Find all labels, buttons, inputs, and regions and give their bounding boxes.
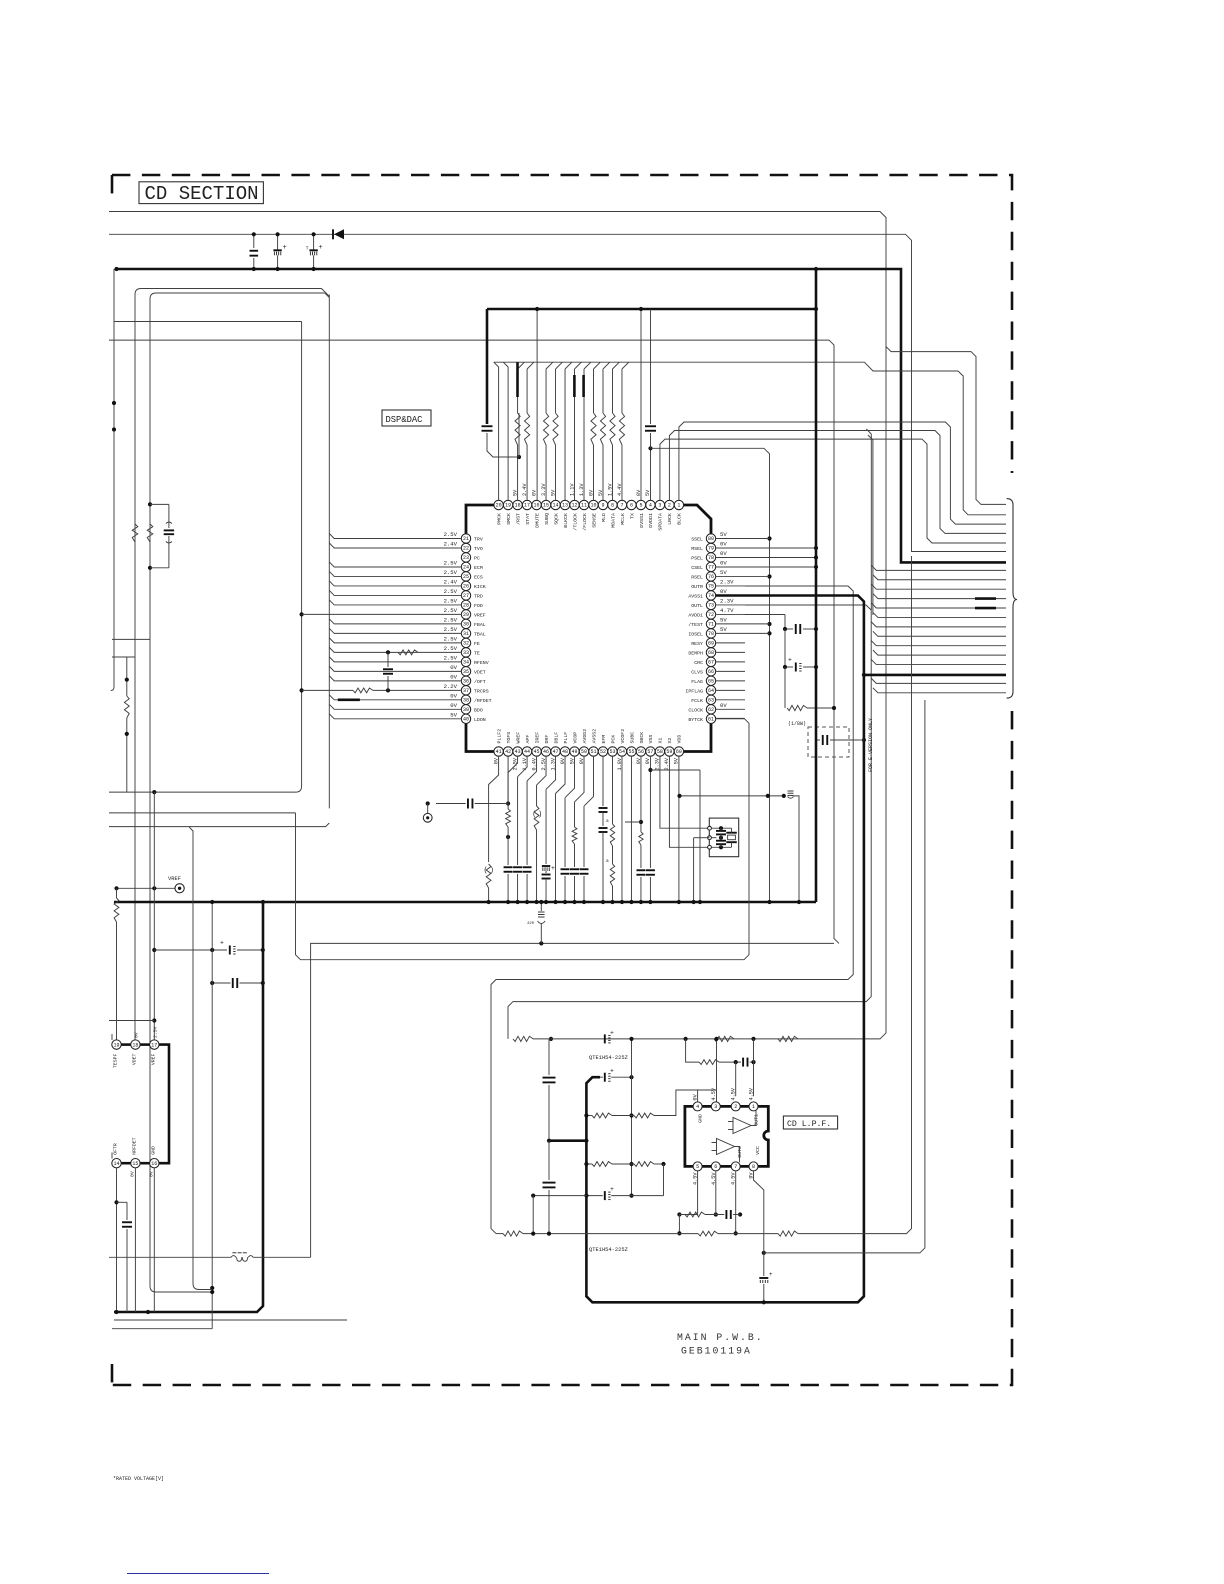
pin 32 FE xyxy=(461,638,470,647)
wire pin 40 horizontal xyxy=(329,714,461,719)
wire row y983 xyxy=(212,982,230,984)
capacitor C pin14 xyxy=(117,1201,128,1203)
bold segment bus marker a xyxy=(516,362,519,397)
svg-text:+: + xyxy=(551,865,555,872)
svg-text:8: 8 xyxy=(611,503,614,509)
capacitor C pin44 xyxy=(513,866,522,868)
svg-text:GND: GND xyxy=(150,1146,156,1155)
pin 3 SPDATA xyxy=(655,500,664,509)
svg-text:5: 5 xyxy=(696,1164,699,1170)
wire pin 48 down xyxy=(556,756,566,794)
svg-text:SMCK: SMCK xyxy=(506,513,512,525)
pin 62 CLOCK xyxy=(706,705,715,714)
pin 72 AVDD1 xyxy=(706,610,715,619)
svg-text:2: 2 xyxy=(734,1104,737,1110)
wire pin 29 from x301 xyxy=(300,612,304,616)
wire left vertical main xyxy=(111,269,114,691)
wire pin 78 stub xyxy=(715,556,816,558)
wire pin 34 horizontal xyxy=(329,657,461,662)
pin 80 SSEL xyxy=(706,534,715,543)
DSP&DAC label box xyxy=(382,410,431,426)
wire xtal rows xyxy=(711,827,731,829)
svg-text:53: 53 xyxy=(609,749,615,755)
pin 70 IOSEL xyxy=(706,629,715,638)
wire pin 43 down xyxy=(508,756,518,773)
wire pin 27 horizontal xyxy=(329,590,461,595)
wire 45 join pin 8 xyxy=(612,362,619,369)
resistor R lpf top b xyxy=(714,1036,734,1041)
pin 8 lpf xyxy=(749,1162,758,1171)
svg-text:39: 39 xyxy=(463,707,469,713)
ferrite bead y795 xyxy=(788,790,794,792)
resistor R pin 53 a xyxy=(610,824,614,846)
capacitor C pin51 xyxy=(580,868,589,870)
svg-text:4.5V: 4.5V xyxy=(711,1087,717,1100)
svg-text:IREF: IREF xyxy=(534,732,540,744)
svg-text:14: 14 xyxy=(113,1161,119,1167)
svg-text:7: 7 xyxy=(734,1164,737,1170)
pin 7 lpf xyxy=(731,1162,740,1171)
pin 78 PSEL xyxy=(706,553,715,562)
svg-text:SSEL: SSEL xyxy=(691,537,703,543)
svg-text:2.5V: 2.5V xyxy=(152,1026,158,1038)
svg-text:STAT: STAT xyxy=(525,513,531,525)
svg-text:NRFDET: NRFDET xyxy=(131,1137,137,1154)
svg-text:VCOP: VCOP xyxy=(572,732,578,744)
pin 19 TESPF xyxy=(112,1040,121,1049)
wire pin 66 stub xyxy=(715,670,745,672)
svg-text:27: 27 xyxy=(463,593,469,599)
wire brace entry 12 xyxy=(873,612,1006,617)
electrolytic capacitor bias xyxy=(586,1195,602,1197)
pin 6 TX xyxy=(627,500,636,509)
wire brace entry 9 xyxy=(871,584,1006,589)
svg-text:MSEL: MSEL xyxy=(691,546,703,552)
svg-text:60: 60 xyxy=(676,749,682,755)
crystal X element xyxy=(726,832,737,834)
svg-text:0V: 0V xyxy=(450,664,457,671)
resistor R pin43 xyxy=(506,809,511,827)
svg-text:58: 58 xyxy=(657,749,663,755)
svg-text:PSEL: PSEL xyxy=(691,555,703,561)
wire 45 join pin 14 xyxy=(556,362,563,369)
svg-text:DEMPH: DEMPH xyxy=(688,650,703,656)
capacitor C avdd a xyxy=(784,615,786,630)
svg-text:ECS: ECS xyxy=(474,574,483,580)
svg-text:5V: 5V xyxy=(720,569,727,576)
thick ground bus xyxy=(114,901,816,904)
svg-text:5V: 5V xyxy=(720,616,727,623)
svg-text:VDET: VDET xyxy=(131,1053,137,1065)
wire brace entry 11 xyxy=(871,603,1006,608)
wire y1257 row xyxy=(109,1256,231,1258)
svg-text:2.5V: 2.5V xyxy=(444,635,458,642)
pin 2 lpf xyxy=(731,1102,740,1111)
pin 77 CSEL xyxy=(706,562,715,571)
svg-text:SBCK: SBCK xyxy=(639,732,645,744)
svg-text:41: 41 xyxy=(496,749,502,755)
svg-text:4.7V: 4.7V xyxy=(720,607,734,614)
crystal X1 oscillator box xyxy=(709,818,738,857)
resistor R bias r2a xyxy=(592,1162,612,1167)
wire 45 join pin 7 xyxy=(622,362,629,369)
bold segment entry overlay a xyxy=(975,597,996,600)
node dot y403 xyxy=(112,401,116,405)
wire xtal gnd xyxy=(694,837,710,839)
svg-text:GEB10119A: GEB10119A xyxy=(681,1346,752,1357)
pin 18 /RST xyxy=(513,500,522,509)
wire pin 49 down xyxy=(565,756,575,798)
wire pin 47 down xyxy=(546,756,556,790)
wire pin 22 horizontal xyxy=(329,543,461,548)
wire vref horizontal y888 xyxy=(117,887,175,889)
wire branch x196 down xyxy=(189,827,212,1290)
svg-text:RSEL: RSEL xyxy=(691,574,703,580)
svg-text:62: 62 xyxy=(708,707,714,713)
svg-text:OUTR: OUTR xyxy=(691,584,703,590)
wire y826 line to bundle xyxy=(109,823,329,827)
svg-text:9: 9 xyxy=(601,503,604,509)
wire pin 11 to rail xyxy=(583,369,585,501)
pin 40 LDON xyxy=(461,714,470,723)
svg-text:61: 61 xyxy=(708,717,714,723)
wire pin 70 stub xyxy=(715,632,769,634)
pin 60 VDD xyxy=(674,747,683,756)
wire brace entry 15 xyxy=(871,641,1006,646)
svg-text:VREF: VREF xyxy=(474,612,486,618)
wire pin 79 stub xyxy=(715,547,816,549)
pin 12 /TLOCK xyxy=(570,500,579,509)
svg-text:DBLF: DBLF xyxy=(553,732,559,744)
wire pin 33 horizontal xyxy=(329,647,461,652)
resistor R on loop1 xyxy=(132,524,138,542)
wire pin 73 stub xyxy=(715,604,745,606)
svg-text:54: 54 xyxy=(619,749,625,755)
svg-text:VREF: VREF xyxy=(168,876,181,882)
pin 69 RESY xyxy=(706,638,715,647)
connector edge tick a xyxy=(111,1034,113,1040)
svg-text:PLLF2: PLLF2 xyxy=(496,729,502,744)
wire brace entry 13 xyxy=(871,622,1006,627)
wire x301 net VREF xyxy=(109,322,302,793)
svg-text:0V: 0V xyxy=(129,1171,135,1177)
wire pin 46 down xyxy=(537,756,547,785)
svg-text:0V: 0V xyxy=(450,673,457,680)
svg-text:4: 4 xyxy=(649,503,652,509)
svg-text:16: 16 xyxy=(151,1161,157,1167)
svg-text:FBAL: FBAL xyxy=(474,622,486,628)
pin 49 VCOP xyxy=(570,747,579,756)
wire vref vertical x154 xyxy=(153,792,155,1040)
svg-text:0V: 0V xyxy=(450,702,457,709)
wire brace entry 7 xyxy=(871,565,1006,570)
svg-text:2.5V: 2.5V xyxy=(444,588,458,595)
wire pin20 up xyxy=(498,367,500,501)
resistor R pull pin 10 xyxy=(593,445,595,501)
wire OUTL to LPF xyxy=(508,605,871,1039)
capacitor C option xyxy=(816,739,820,741)
bold segment pin38 marker xyxy=(338,698,360,701)
wire pin 56 down xyxy=(640,756,642,832)
wire pin 67 stub xyxy=(715,661,745,663)
wire x533 stub xyxy=(533,1195,586,1197)
wire pin 59 down xyxy=(669,756,707,848)
wire brace entry 16 xyxy=(873,650,1006,655)
svg-text:0V: 0V xyxy=(133,1032,139,1038)
resistor R avdd xyxy=(784,667,786,708)
wire brace entry 8 xyxy=(873,575,1006,580)
svg-text:22: 22 xyxy=(463,546,469,552)
svg-text:DMUTE: DMUTE xyxy=(534,513,540,528)
wire pin 35 horizontal xyxy=(329,666,461,671)
svg-text:67: 67 xyxy=(708,660,714,666)
wire pin 72 stub xyxy=(715,613,769,615)
wire y321 horizontal xyxy=(114,321,302,323)
thick power bus to brace entry 6 xyxy=(117,269,1007,562)
svg-text:65: 65 xyxy=(708,679,714,685)
wire pin 50 down xyxy=(575,756,585,802)
pin 4 lpf xyxy=(693,1102,702,1111)
svg-text:SUBC: SUBC xyxy=(629,732,635,744)
capacitor C pin49 xyxy=(561,868,570,870)
wire 5v row y950 xyxy=(154,949,227,951)
svg-text:+: + xyxy=(788,657,792,664)
thick branch left cap xyxy=(487,308,816,311)
svg-text:0V: 0V xyxy=(720,702,727,709)
resistor R pin33 wire xyxy=(398,650,418,655)
svg-text:42: 42 xyxy=(505,749,511,755)
svg-text:64: 64 xyxy=(708,688,714,694)
pin 76 RSEL xyxy=(706,572,715,581)
electrolytic capacitor on rail2 a xyxy=(277,234,279,250)
pin 4 DVDD1 xyxy=(646,500,655,509)
svg-text:TOFS: TOFS xyxy=(506,732,512,744)
electrolytic capacitor pin47 xyxy=(542,865,550,867)
pin 6 lpf xyxy=(711,1162,720,1171)
pin 16 DMUTE xyxy=(532,500,541,509)
pin 15 SUBQ xyxy=(541,500,550,509)
svg-text:SENSE: SENSE xyxy=(591,513,597,528)
pin 1 BLCK xyxy=(674,500,683,509)
wire pin 45 down xyxy=(527,756,537,781)
svg-text:/TLOCK: /TLOCK xyxy=(572,513,578,531)
wire pin 13 to rail xyxy=(564,369,566,501)
svg-text:44: 44 xyxy=(524,749,530,755)
wire pin7 down xyxy=(735,1171,737,1234)
wire loop1 vertical x135 xyxy=(135,289,322,1040)
pin 28 FOD xyxy=(461,600,470,609)
resistor R pull pin 18 xyxy=(517,445,519,501)
diode D on rail2 xyxy=(334,229,344,239)
svg-text:T: T xyxy=(306,246,309,252)
wire pin8 down xyxy=(754,1171,764,1268)
capacitor C y983 xyxy=(232,978,234,988)
resistor R bias r2b xyxy=(634,1162,654,1167)
svg-text:2.5V: 2.5V xyxy=(444,559,458,566)
svg-text:79: 79 xyxy=(708,546,714,552)
pin 13 BLKCK xyxy=(560,500,569,509)
pin 22 TVO xyxy=(461,543,470,552)
svg-text:PCK: PCK xyxy=(610,735,616,744)
resistor R y1233 right xyxy=(778,1231,798,1236)
svg-text:74: 74 xyxy=(708,593,714,599)
pin 14 SQCK xyxy=(551,500,560,509)
wire brace entry 14 xyxy=(873,631,1006,636)
svg-text:34: 34 xyxy=(463,660,469,666)
svg-text:BYTCK: BYTCK xyxy=(688,717,703,723)
svg-text:PMCK: PMCK xyxy=(496,513,502,525)
pin 39 BDO xyxy=(461,705,470,714)
wire loop2 45 bend into bundle xyxy=(325,293,330,298)
wire lpf lower feedback xyxy=(677,1212,681,1216)
svg-text:AVDD1: AVDD1 xyxy=(688,612,703,618)
pin 79 MSEL xyxy=(706,543,715,552)
svg-text:33: 33 xyxy=(463,650,469,656)
svg-text:11: 11 xyxy=(581,503,587,509)
svg-text:TBAL: TBAL xyxy=(474,631,486,637)
pin 18 VDET xyxy=(131,1040,140,1049)
wire pin 38 horizontal xyxy=(329,695,461,700)
svg-text:DVSS1: DVSS1 xyxy=(639,513,645,528)
svg-text:10: 10 xyxy=(590,503,596,509)
svg-text:PLLF: PLLF xyxy=(563,732,569,744)
svg-text:66: 66 xyxy=(708,669,714,675)
pin 16 GND xyxy=(150,1159,159,1168)
svg-text:MDATA: MDATA xyxy=(610,513,616,528)
capacitor C lpf input b xyxy=(548,1141,550,1180)
svg-text:32: 32 xyxy=(463,641,469,647)
junction lpf left xyxy=(549,1037,553,1041)
pin 48 PLLF xyxy=(560,747,569,756)
svg-text:QTE1H54-225Z: QTE1H54-225Z xyxy=(589,1055,629,1061)
svg-text:EFM: EFM xyxy=(601,735,607,744)
ferrite bead 0ohm xyxy=(232,1252,236,1254)
svg-text:CD SECTION: CD SECTION xyxy=(145,183,259,205)
pin 10 SENSE xyxy=(589,500,598,509)
pin 19 SMCK xyxy=(503,500,512,509)
svg-text:OUT2: OUT2 xyxy=(737,1146,743,1158)
svg-text:19: 19 xyxy=(113,1042,119,1048)
node test point circle xyxy=(426,801,430,805)
svg-text:68: 68 xyxy=(708,650,714,656)
dashed section border xyxy=(112,175,1012,1385)
svg-text:2.4V: 2.4V xyxy=(444,578,458,585)
wire pin 41 down xyxy=(489,756,499,862)
svg-text:+: + xyxy=(319,244,323,252)
svg-text:OUT1: OUT1 xyxy=(754,1114,760,1126)
svg-text:71: 71 xyxy=(708,622,714,628)
svg-text:CD L.P.F.: CD L.P.F. xyxy=(787,1120,831,1129)
wire pin 25 horizontal xyxy=(329,571,461,576)
svg-text:18: 18 xyxy=(515,503,521,509)
svg-text:AVSS2: AVSS2 xyxy=(591,729,597,744)
thick wire pin16 rail xyxy=(536,309,538,501)
resistor R lpf top c xyxy=(778,1036,798,1041)
svg-text:/RST: /RST xyxy=(515,513,521,525)
svg-text:28: 28 xyxy=(463,603,469,609)
resistor R pull pin 7 xyxy=(621,445,623,501)
wire y1233 row xyxy=(496,1233,503,1235)
svg-text:47: 47 xyxy=(553,749,559,755)
svg-text:GND: GND xyxy=(698,1114,704,1123)
svg-text:TE: TE xyxy=(474,650,480,656)
pin 64 IPFLAG xyxy=(706,686,715,695)
svg-text:6: 6 xyxy=(630,503,633,509)
svg-text:0V: 0V xyxy=(148,1171,154,1177)
node dot y429 xyxy=(112,427,116,431)
svg-text:WREF: WREF xyxy=(515,732,521,744)
wire rail y362 to brace entry 1 xyxy=(494,362,1006,515)
pin 15 NRFDET xyxy=(131,1159,140,1168)
svg-text:CLVS: CLVS xyxy=(691,669,703,675)
svg-text:TRCRS: TRCRS xyxy=(474,688,489,694)
resistor R pull pin 17 xyxy=(526,445,528,501)
thick wire AVSS to brace entry 18 xyxy=(864,674,1006,677)
bus brace xyxy=(1007,499,1017,698)
svg-text:70: 70 xyxy=(708,631,714,637)
svg-text:49: 49 xyxy=(572,749,578,755)
svg-text:46: 46 xyxy=(543,749,549,755)
svg-text:48: 48 xyxy=(562,749,568,755)
svg-text:TX: TX xyxy=(629,513,635,519)
pin 33 TE xyxy=(461,648,470,657)
wire pin19 up xyxy=(507,367,509,501)
pin 7 MCLK xyxy=(617,500,626,509)
wire pin 62 stub xyxy=(715,708,745,710)
wire bundle vertical left of IC xyxy=(328,295,330,809)
capacitor C pin45 xyxy=(523,866,532,868)
wire brace entry 19 xyxy=(871,678,1006,683)
svg-text:ECM: ECM xyxy=(474,565,483,571)
op-amp triangle lower xyxy=(717,1139,735,1155)
pin 74 AVSS1 xyxy=(706,591,715,600)
pin 5 lpf xyxy=(693,1162,702,1171)
pin 38 /RFDET xyxy=(461,695,470,704)
svg-text:73: 73 xyxy=(708,603,714,609)
capacitor C pin43 xyxy=(504,866,513,868)
wire pin5 down xyxy=(679,1171,697,1215)
pin 11 /FLOCK xyxy=(579,500,588,509)
svg-text:OUTL: OUTL xyxy=(691,603,703,609)
capacitor C pin52 high xyxy=(602,756,604,806)
svg-text:VCC: VCC xyxy=(755,1146,761,1155)
svg-text:0V: 0V xyxy=(720,550,727,557)
wire pin 36 horizontal xyxy=(329,676,461,681)
wire 9v row xyxy=(762,1251,766,1255)
capacitor C parallel loop2 xyxy=(150,503,169,505)
resistor R below vref xyxy=(114,898,119,922)
svg-text:40: 40 xyxy=(463,717,469,723)
svg-text:CRC: CRC xyxy=(694,660,703,666)
wire pin 68 stub xyxy=(715,651,745,653)
pin 46 DRF xyxy=(541,747,550,756)
wire to thick edge xyxy=(549,1139,586,1142)
svg-text:1: 1 xyxy=(752,1104,755,1110)
svg-text:5V: 5V xyxy=(720,626,727,633)
pin 20 PMCK xyxy=(494,500,503,509)
svg-text:15: 15 xyxy=(543,503,549,509)
wire bias to pin3 pin4 xyxy=(654,1090,717,1116)
wire pin2 up xyxy=(735,1062,737,1096)
svg-text:a: a xyxy=(606,819,609,824)
wire pin 80 stub xyxy=(715,538,769,540)
wire pin 24 horizontal xyxy=(329,562,461,567)
pin 14 OFTR xyxy=(112,1159,121,1168)
capacitor C fb upper xyxy=(742,1058,744,1067)
svg-text:BDO: BDO xyxy=(474,707,483,713)
svg-text:*RATED VOLTAGE[V]: *RATED VOLTAGE[V] xyxy=(113,1476,164,1482)
resistor R pull pin 14 xyxy=(555,445,557,501)
